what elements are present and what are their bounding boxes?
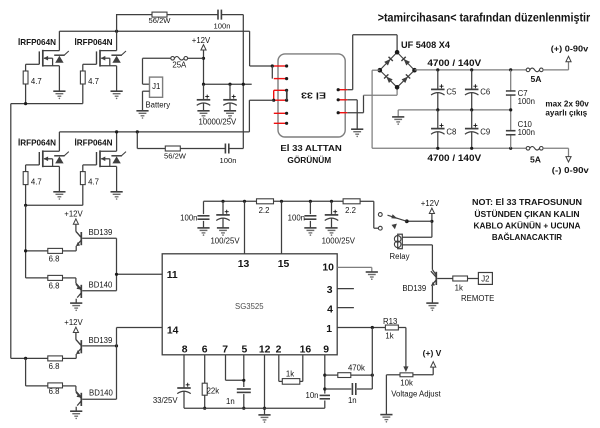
potentiometer 10k Voltage Adjust <box>400 373 413 377</box>
svg-text:+12V: +12V <box>421 199 440 208</box>
wire Q9 base <box>437 278 453 280</box>
svg-text:10000/25V: 10000/25V <box>199 117 238 126</box>
wire VCC bus segment 1 <box>204 200 257 202</box>
wire pin 14 lead <box>117 327 163 329</box>
capacitor 100n snubber2 <box>225 144 228 154</box>
svg-text:+12V: +12V <box>192 36 211 45</box>
wire Q6 output <box>82 290 116 292</box>
svg-text:1000/25V: 1000/25V <box>322 236 356 245</box>
wire Q6 collector to ground <box>75 299 77 303</box>
svg-text:470k: 470k <box>348 363 365 372</box>
fuse 5A positive output <box>526 68 543 72</box>
svg-text:C5: C5 <box>446 88 457 97</box>
resistor 6.8 driver2 top <box>48 356 63 361</box>
ground bus ground symbol <box>258 415 270 420</box>
svg-text:15: 15 <box>278 259 290 270</box>
ground Q3 source <box>53 192 65 197</box>
capacitor C5 4700/140V <box>437 70 439 89</box>
svg-text:R13: R13 <box>383 317 397 326</box>
svg-text:1k: 1k <box>286 369 294 378</box>
transformer T1 left pin 2 <box>274 78 287 80</box>
resistor 2.2 VCC filter 1 <box>257 199 274 204</box>
svg-text:22k: 22k <box>207 386 220 395</box>
wire short pins 1-2 <box>271 66 273 79</box>
node junction pin13 stub <box>243 200 246 203</box>
node junction M2 drain / snubber tap <box>115 30 118 33</box>
wire pin 3 lead (nc) <box>337 288 354 290</box>
wire secondary pin R1 to bridge top <box>347 89 352 91</box>
capacitor 100n snubber1 <box>218 10 221 20</box>
wire pin 11 lead <box>117 273 163 275</box>
svg-text:C8: C8 <box>446 127 456 136</box>
resistor 4.7 gate Q4 <box>80 172 85 185</box>
wire fuse to negative terminal <box>543 147 568 149</box>
svg-text:3: 3 <box>327 285 333 296</box>
power +12V arrow driver2 <box>73 327 78 332</box>
transistor Q9 BD139 relay driver <box>435 272 437 285</box>
node junction C10 bottom <box>509 147 512 150</box>
svg-text:12: 12 <box>259 345 271 356</box>
svg-text:max 2x 90v: max 2x 90v <box>545 100 589 109</box>
resistor 22k RT <box>202 383 207 395</box>
resistor 470k feedback <box>325 374 338 376</box>
node bridge right corner <box>412 68 417 73</box>
svg-text:Battery: Battery <box>145 100 170 109</box>
wire pin 16 stub <box>302 355 304 382</box>
svg-text:(+) V: (+) V <box>423 348 442 358</box>
svg-text:+12V: +12V <box>64 209 83 218</box>
node bridge top corner <box>395 50 400 55</box>
node junction pin1 / feedback <box>371 326 374 329</box>
capacitor 1000/25V <box>331 201 333 214</box>
svg-text:Eİ 33: Eİ 33 <box>301 91 326 101</box>
wire Q1 gate resistor to upper gate bus <box>25 84 27 104</box>
svg-text:4.7: 4.7 <box>88 77 99 86</box>
wire 6.8 to Q6 emitter <box>63 277 76 279</box>
svg-text:Relay: Relay <box>390 252 410 261</box>
wire 6.8 bottom driver2 <box>26 385 48 387</box>
wire feedback vertical <box>371 328 373 390</box>
wire +12V to relay contact lever <box>431 214 433 238</box>
wire Q5 output to pin11 node <box>82 237 116 239</box>
node junction C5 bottom <box>436 108 439 111</box>
svg-text:İRFP064N: İRFP064N <box>18 137 56 147</box>
wire pin 7 stub <box>225 355 227 381</box>
wire midpoint to ground <box>397 110 399 117</box>
wire pin 12 stub to ground bus <box>264 355 266 415</box>
ground Q4 source <box>111 192 123 197</box>
wire +12V bus horizontal <box>204 83 252 85</box>
svg-text:BD140: BD140 <box>89 281 114 290</box>
relay switch lever <box>388 215 407 221</box>
wire bridge left corner to negative rail <box>372 69 380 71</box>
wire Q4 gate resistor to lower gate bus <box>82 185 84 206</box>
capacitor C10 100n <box>506 130 516 132</box>
node junction pin15 stub <box>280 200 283 203</box>
svg-text:GÖRÜNÜM: GÖRÜNÜM <box>287 155 331 165</box>
wire Q8 collector to ground <box>75 407 77 411</box>
ground capacitor C2 <box>224 111 236 116</box>
node junction 1000/25V cap <box>330 200 333 203</box>
node junction 22k / ground bus <box>203 407 206 410</box>
wire battery positive vertical <box>142 58 144 84</box>
pot wiper arrow <box>403 366 408 372</box>
resistor 4.7 gate Q1 <box>23 71 28 84</box>
wire pin 13 stub <box>244 201 246 254</box>
wire snubber vertical x243 to +12V bus and lower snubber <box>242 15 244 149</box>
svg-text:8: 8 <box>182 345 188 356</box>
svg-text:6.8: 6.8 <box>49 387 60 396</box>
svg-text:56/2W: 56/2W <box>149 16 172 25</box>
terminal arrow (-) 0-90v <box>566 157 571 162</box>
wire Q3 drain to bus <box>58 132 60 151</box>
resistor 6.8 driver1 bottom <box>48 275 63 280</box>
svg-text:J1: J1 <box>152 82 160 91</box>
node junction 100/25V cap <box>221 200 224 203</box>
node junction C5 top <box>436 68 439 71</box>
transformer T1 left pin 6 <box>274 122 287 124</box>
capacitor 10000/25V C1 <box>203 84 205 99</box>
wire coil to Q9 collector <box>431 245 433 270</box>
node relay lever pivot <box>405 219 409 223</box>
svg-text:ayarlı çıkış: ayarlı çıkış <box>545 108 587 117</box>
svg-text:2.2: 2.2 <box>259 206 270 215</box>
svg-text:11: 11 <box>167 270 178 281</box>
transistor Q4 IRFP064N <box>97 150 117 167</box>
node junction +12V bus / C1 <box>202 83 205 86</box>
svg-text:İRFP064N: İRFP064N <box>75 37 113 47</box>
wire C7/C10 column <box>510 70 512 148</box>
wire snubber2 mid segment <box>180 148 225 150</box>
capacitor 1n CT <box>237 389 251 392</box>
wire short pins 3-4 outer <box>273 90 275 100</box>
capacitor C6 4700/140V <box>471 70 473 89</box>
svg-text:UF 5408 X4: UF 5408 X4 <box>401 40 450 50</box>
wire 6.8 top to gate bus <box>26 250 48 252</box>
svg-text:(+) 0-90v: (+) 0-90v <box>551 44 589 54</box>
wire secondary pin R2 to ground <box>347 99 357 101</box>
ground transformer center tap secondary <box>351 129 363 134</box>
ground pin 10 <box>366 272 378 277</box>
node junction C8 bottom <box>436 147 439 150</box>
node junction pin4 link <box>272 99 275 102</box>
wire pot left to ground <box>386 374 400 376</box>
transformer T1 right pin 3 <box>338 112 347 114</box>
wire battery to fuse <box>143 57 171 59</box>
wire snubber1 mid segment <box>167 14 218 16</box>
wire analog ground bus <box>184 407 325 409</box>
wire pot right to (+)V <box>413 374 433 376</box>
node junction Q4 drain <box>115 130 118 133</box>
node junction pin5/pin7 <box>242 379 245 382</box>
capacitor 10n pin9 <box>320 395 330 398</box>
fuse 25A <box>171 57 188 61</box>
svg-text:BD140: BD140 <box>89 388 114 397</box>
wire relay coil top terminal <box>402 236 432 238</box>
svg-text:4700 / 140V: 4700 / 140V <box>427 58 481 68</box>
node junction pin12 / ground bus <box>263 407 266 410</box>
svg-text:+12V: +12V <box>64 318 83 327</box>
wire VCC bus to relay contact <box>373 201 375 228</box>
node junction +12V bus / C2 <box>228 83 231 86</box>
transformer T1 left pin 4 <box>274 99 287 101</box>
wire short pins 3-4 inner bar <box>286 90 288 100</box>
svg-text:6.8: 6.8 <box>49 254 60 263</box>
svg-text:ÜSTÜNDEN ÇIKAN KALIN: ÜSTÜNDEN ÇIKAN KALIN <box>474 209 579 219</box>
svg-text:4.7: 4.7 <box>88 178 99 187</box>
wire battery negative <box>143 90 150 92</box>
ground output midpoint <box>392 117 404 122</box>
ground 1000/25V <box>325 228 337 233</box>
resistor 4.7 gate Q2 <box>80 71 85 84</box>
capacitor 10000/25V C2 <box>229 84 231 99</box>
wire Q7 emitter to 6.8 <box>75 354 77 358</box>
capacitor C8 4700/140V <box>437 110 439 128</box>
svg-text:BAĞLANACAKTIR: BAĞLANACAKTIR <box>492 231 562 242</box>
node junction driver1 output <box>115 273 118 276</box>
resistor 1k remote <box>453 276 468 281</box>
transformer T1 left pin 1 <box>274 65 287 67</box>
wire bridge bottom corner link <box>364 94 398 96</box>
svg-text:4.7: 4.7 <box>31 178 42 187</box>
op-amp U1 SG3525 body <box>162 254 337 355</box>
wire snubber2 link vertical <box>136 132 138 149</box>
wire Q8 output <box>82 398 116 400</box>
transistor Q6 BD140 <box>80 285 82 298</box>
connector J1 battery <box>150 77 163 97</box>
svg-text:9: 9 <box>323 345 329 356</box>
wire +12V arrow down to bus <box>203 50 205 84</box>
node junction pin1 link <box>271 64 274 67</box>
svg-text:1n: 1n <box>348 396 357 405</box>
svg-text:(-) 0-90v: (-) 0-90v <box>552 165 589 175</box>
node junction C9 bottom <box>470 147 473 150</box>
ground capacitor C1 <box>197 111 209 116</box>
svg-text:10: 10 <box>322 263 334 274</box>
wire Q1 drain to bus <box>58 31 60 50</box>
wire pin 2 stub <box>278 355 280 382</box>
node junction driver2 output <box>115 344 118 347</box>
wire driver2 collector feed <box>75 333 77 340</box>
wire pin 6 stub <box>204 355 206 383</box>
capacitor 33/25V soft-start <box>177 387 191 389</box>
node bridge bottom corner <box>395 85 400 90</box>
diode bridge D4 (bottom-right edge) <box>397 70 414 87</box>
ground pot <box>380 415 392 420</box>
node junction gate bus / 6.8 top <box>24 249 27 252</box>
resistor 6.8 driver2 bottom <box>48 383 63 388</box>
wire primary A: drain bus to pin1 <box>249 31 251 66</box>
node junction C7 top <box>509 68 512 71</box>
transistor Q3 IRFP064N <box>39 150 59 167</box>
wire lower drain bus <box>59 131 249 133</box>
wire Q5 emitter to 6.8 <box>75 246 77 251</box>
wire Q2 source to ground <box>116 66 118 91</box>
svg-text:NOT: Eİ 33 TRAFOSUNUN: NOT: Eİ 33 TRAFOSUNUN <box>472 197 582 207</box>
node junction C7/C10 midpoint <box>509 108 512 111</box>
svg-text:4: 4 <box>327 305 333 316</box>
svg-text:BD139: BD139 <box>402 284 426 293</box>
power +12V arrow relay <box>429 208 434 213</box>
resistor R13 1k <box>385 325 398 330</box>
transformer T1 left pin 5 <box>274 112 287 114</box>
transistor Q2 IRFP064N <box>97 50 117 67</box>
transistor Q7 BD139 <box>80 340 82 353</box>
wire driver2 output to pin 14 <box>116 328 118 400</box>
wire snubber2 right segment <box>229 148 244 150</box>
transistor Q1 IRFP064N <box>39 50 59 67</box>
resistor 56/2W snubber2 <box>165 146 180 151</box>
wire Q9 emitter to ground <box>431 286 433 303</box>
svg-text:4700 / 140V: 4700 / 140V <box>427 153 481 163</box>
wire pin 5 stub <box>243 355 245 387</box>
svg-text:5: 5 <box>242 345 248 356</box>
wire VCC bus segment 3 <box>360 200 374 202</box>
svg-text:6.8: 6.8 <box>49 281 60 290</box>
wire Q3 gate lead <box>26 164 40 166</box>
ground Q2 source <box>111 91 123 96</box>
svg-text:İRFP064N: İRFP064N <box>75 137 113 147</box>
power +12V arrow battery rail <box>201 45 206 50</box>
wire VCC bus segment 2 <box>274 200 344 202</box>
wire lever horizontal <box>407 220 432 222</box>
wire 6.8 to Q8 emitter <box>63 385 76 387</box>
wire snubber1 right segment <box>221 14 243 16</box>
wire vertical lower gates to upper driver pair <box>25 205 27 278</box>
capacitor 100n VCC a <box>203 201 205 214</box>
transformer T1 EI33 body <box>278 54 345 137</box>
wire 470k to feedback node <box>351 374 373 376</box>
wire Q2 gate lead <box>83 63 97 65</box>
svg-text:100n: 100n <box>180 213 197 222</box>
wire snubber1 link vertical <box>116 14 118 31</box>
diode bridge D1 (top-left edge) <box>380 52 397 70</box>
wire upper drain bus <box>59 30 249 32</box>
wire pin 15 stub <box>281 201 283 254</box>
relay contact bottom <box>378 226 382 230</box>
svg-text:1k: 1k <box>385 331 393 340</box>
wire pin 1 lead <box>337 327 385 329</box>
node junction C6 bottom <box>470 108 473 111</box>
svg-text:14: 14 <box>167 326 179 337</box>
node junction snubber2 tap <box>136 130 139 133</box>
wire pin 10 lead to ground <box>337 266 372 268</box>
resistor 56/2W snubber1 <box>152 12 167 17</box>
svg-text:1: 1 <box>326 324 332 335</box>
wire pin 9 stub <box>324 355 326 394</box>
node junction 100n cap b <box>309 200 312 203</box>
svg-text:J2: J2 <box>481 274 489 283</box>
ground Q8 <box>70 411 82 416</box>
wire Q2 drain to bus <box>116 31 118 50</box>
svg-text:7: 7 <box>222 345 228 356</box>
svg-text:6: 6 <box>202 345 208 356</box>
wire 6.8 bottom to gate bus <box>26 277 48 279</box>
capacitor C7 100n <box>506 90 516 92</box>
wire Q7 output to pin14 node <box>82 345 116 347</box>
wire output midpoint bus <box>398 109 511 111</box>
wire snubber1 bus left segment <box>117 14 152 16</box>
svg-text:SG3525: SG3525 <box>235 302 264 311</box>
capacitor 100/25V <box>222 201 224 214</box>
wire left vertical bus to lower driver pair <box>10 104 12 359</box>
connector J2 REMOTE <box>478 273 492 285</box>
svg-text:10n: 10n <box>305 391 318 400</box>
fuse 5A negative output <box>526 147 543 151</box>
wire upper gate bus horizontal <box>11 103 83 105</box>
relay coil <box>398 234 403 249</box>
svg-text:100n: 100n <box>518 128 535 137</box>
diode bridge D3 (bottom-left edge) <box>380 70 397 87</box>
svg-text:C6: C6 <box>480 88 490 97</box>
svg-text:100n: 100n <box>288 213 305 222</box>
node junction pin9 / 1n <box>323 387 326 390</box>
transistor Q8 BD140 <box>80 393 82 406</box>
wire pin 8 stub <box>183 355 185 388</box>
wire driver1 collector feed <box>75 224 77 231</box>
svg-text:5A: 5A <box>530 154 541 164</box>
wire Q4 drain to bus <box>116 132 118 151</box>
wire Q1 source to ground <box>58 66 60 91</box>
wire Q3 source to ground <box>58 166 60 191</box>
svg-text:BD139: BD139 <box>89 336 113 345</box>
wire R13 to pot wiper <box>398 327 406 329</box>
ground Q9 <box>426 303 438 308</box>
ground battery negative <box>136 111 148 116</box>
svg-text:REMOTE: REMOTE <box>461 294 494 303</box>
wire relay coil bottom terminal <box>402 244 432 246</box>
svg-text:>tamircihasan< tarafından düze: >tamircihasan< tarafından düzenlenmiştir <box>378 10 591 24</box>
node junction feedback / 470k <box>371 374 374 377</box>
capacitor 100n VCC b <box>309 201 311 214</box>
resistor 6.8 driver1 top <box>48 248 63 253</box>
svg-text:56/2W: 56/2W <box>164 151 187 160</box>
capacitor C9 4700/140V <box>471 110 473 128</box>
svg-text:16: 16 <box>300 345 312 356</box>
node junction +12V bus / snubber vertical <box>242 83 245 86</box>
svg-text:100n: 100n <box>214 22 231 31</box>
wire negative output rail <box>372 147 526 149</box>
ground 100/25V <box>217 228 229 233</box>
svg-text:Eİ 33 ALTTAN: Eİ 33 ALTTAN <box>280 143 341 153</box>
diode bridge D2 (top-right edge) <box>397 52 414 70</box>
svg-text:KABLO AKÜNÜN + UCUNA: KABLO AKÜNÜN + UCUNA <box>474 221 581 231</box>
svg-text:İRFP064N: İRFP064N <box>18 37 56 47</box>
ground 100n b <box>304 228 316 233</box>
svg-text:C9: C9 <box>480 127 490 136</box>
svg-text:33/25V: 33/25V <box>153 396 179 405</box>
terminal arrow (+) V <box>431 362 436 367</box>
wire vertical to 6.8 bottom driver2 <box>25 358 27 386</box>
svg-text:1k: 1k <box>455 283 463 292</box>
node junction fuse / +12V <box>202 57 205 60</box>
transformer T1 left pin 3 <box>274 89 287 91</box>
svg-text:6.8: 6.8 <box>49 362 60 371</box>
wire snubber2 bus left segment <box>137 148 165 150</box>
node bridge left corner <box>378 68 383 73</box>
wire fuse to +12V node <box>188 57 204 59</box>
svg-text:100n: 100n <box>220 156 237 165</box>
wire Q4 source to ground <box>116 166 118 191</box>
node junction lower gate bus <box>24 204 27 207</box>
node junction lever / +12V <box>430 220 433 223</box>
wire primary B: pin4 to lower drain bus <box>249 99 273 101</box>
svg-text:13: 13 <box>238 259 250 270</box>
svg-text:10k: 10k <box>400 378 413 387</box>
ground Q6 <box>70 303 82 308</box>
svg-text:1n: 1n <box>226 397 235 406</box>
resistor 1k pin2-pin16 <box>282 379 300 385</box>
